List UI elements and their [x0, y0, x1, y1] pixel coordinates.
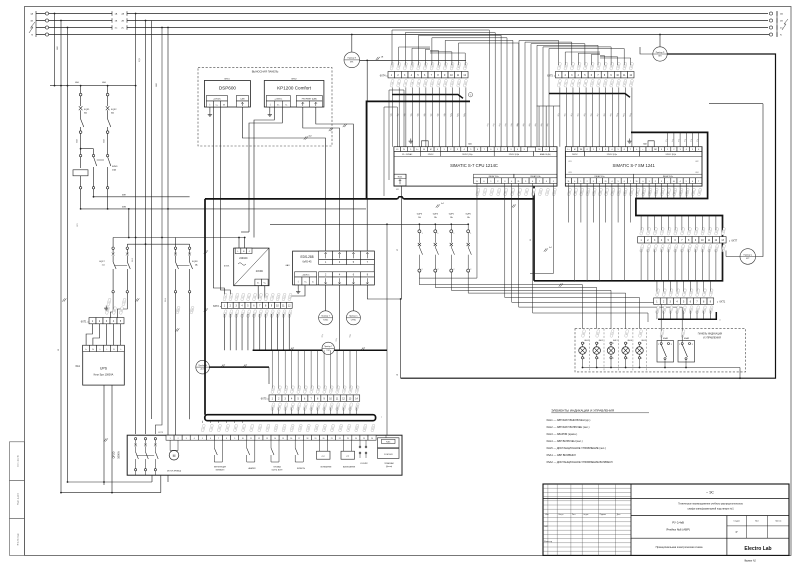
- terminal strip 6XT1 (UPS): [89, 318, 96, 324]
- svg-text:Стадия: Стадия: [733, 520, 739, 522]
- thick power line loop right: [534, 132, 723, 280]
- svg-text:220VAC: 220VAC: [239, 257, 248, 260]
- ground above CPU: [410, 139, 412, 142]
- svg-text:– ЭС: – ЭС: [706, 490, 714, 494]
- wire to fire sensor box: [386, 224, 388, 437]
- svg-text:6Ш3: 6Ш3: [132, 258, 134, 262]
- svg-text:2: 2: [641, 358, 642, 360]
- svg-text:Прибор П: Прибор П: [348, 58, 357, 60]
- svg-text:COM 043: COM 043: [384, 454, 393, 456]
- bus right terminals 2A 2B 2C N: [776, 11, 778, 37]
- svg-text:Р: Р: [736, 530, 738, 534]
- svg-text:5: 5: [202, 438, 203, 440]
- svg-text:18: 18: [306, 438, 308, 440]
- svg-text:9: 9: [234, 438, 235, 440]
- svg-text:6ХТ4: 6ХТ4: [380, 74, 386, 77]
- svg-text:6НG2: 6НG2: [291, 78, 297, 80]
- wires SM relay outputs right group to shield: [636, 183, 638, 198]
- svg-text:6Х2: 6Х2: [695, 161, 698, 163]
- svg-text:Ячейка №6 (АВР): Ячейка №6 (АВР): [666, 527, 690, 531]
- contact seal: [270, 440, 272, 448]
- svg-text:◂: ◂: [554, 74, 555, 77]
- svg-text:QF2D: QF2D: [112, 451, 116, 458]
- svg-text:24VDC (DI)a: 24VDC (DI)a: [462, 154, 472, 156]
- wires 6XT1 to UPS inputs: [86, 324, 92, 346]
- svg-text:◂: ◂: [267, 398, 268, 401]
- svg-text:4: 4: [680, 181, 681, 183]
- svg-text:22: 22: [339, 438, 341, 440]
- svg-text:2: 2: [178, 438, 179, 440]
- meter 6P2: [653, 47, 667, 61]
- svg-text:16: 16: [290, 438, 292, 440]
- meter 6RT: [726, 251, 740, 257]
- svg-text:7: 7: [698, 181, 699, 183]
- wire N drop to meter 6P2: [659, 35, 661, 48]
- svg-text:Подп. и дата: Подп. и дата: [18, 492, 20, 505]
- svg-text:ПАНЕЛЬ ИНДИКАЦИИ: ПАНЕЛЬ ИНДИКАЦИИ: [698, 332, 723, 335]
- thick power rail left drop: [204, 199, 206, 415]
- svg-text:Т2П: Т2П: [326, 350, 330, 352]
- wire feeder to breakers 6QF3-6QF6: [270, 223, 468, 225]
- svg-text:1: 1: [438, 233, 439, 235]
- terminal strip 6XT2: [221, 302, 227, 308]
- svg-text:6Ш1: 6Ш1: [57, 46, 59, 50]
- svg-text:6ХТ2: 6ХТ2: [213, 305, 219, 308]
- svg-text:⏚: ⏚: [99, 348, 101, 351]
- svg-text:2: 2: [470, 269, 471, 271]
- svg-text:KP1200 Comfort: KP1200 Comfort: [277, 86, 312, 91]
- ground EDS: [297, 285, 299, 289]
- svg-text:6HL2: 6HL2: [599, 340, 604, 342]
- svg-text:23: 23: [347, 438, 349, 440]
- wires CPU analog cells up: [538, 106, 540, 147]
- svg-text:ВЫНОСНАЯ ПАНЕЛЬ: ВЫНОСНАЯ ПАНЕЛЬ: [252, 70, 279, 74]
- coil CT switch-off: [341, 451, 355, 459]
- terminal strip 6XT7: [638, 237, 645, 243]
- wire bottom collector y492.6: [61, 492, 161, 494]
- UPS 6G1 Keor Spx 1000VA: [83, 345, 125, 385]
- svg-text:4: 4: [611, 149, 612, 151]
- svg-text:0: 0: [587, 149, 588, 151]
- svg-text:7: 7: [630, 181, 631, 183]
- svg-text:1: 1: [641, 343, 642, 345]
- svg-text:12: 12: [258, 438, 260, 440]
- relay output row CPU: [474, 174, 514, 178]
- svg-text:2M: 2M: [654, 149, 657, 151]
- svg-text:3: 3: [692, 344, 693, 346]
- svg-text:ВКЛЮЧЕНИЕ: ВКЛЮЧЕНИЕ: [321, 467, 333, 469]
- wire bus 6IP y196.8: [93, 189, 95, 197]
- svg-text:2L: 2L: [605, 181, 607, 183]
- svg-text:24: 24: [355, 438, 357, 440]
- switchgear QF2D 1600A: [127, 435, 402, 475]
- svg-text:1: 1: [580, 181, 581, 183]
- svg-text:1M: 1M: [580, 149, 583, 151]
- svg-text:6HL5 — ДИСТАНЦИОННОЕ УПРАВЛЕНИ: 6HL5 — ДИСТАНЦИОННОЕ УПРАВЛЕНИЕ (зел.): [547, 446, 606, 450]
- svg-text:ФИЛЬТРЫ: ФИЛЬТРЫ: [297, 467, 306, 470]
- svg-text:Прибор В: Прибор В: [198, 365, 207, 367]
- svg-text:6ИВ: 6ИВ: [122, 206, 127, 208]
- busbar above switchgear: [205, 415, 376, 421]
- wires PSU outputs down to 6XT2: [257, 286, 259, 299]
- wires 6XT5 bottom up to shield bar: [271, 350, 273, 388]
- svg-text:◂: ◂: [386, 74, 387, 77]
- svg-text:10: 10: [242, 438, 244, 440]
- svg-text:6: 6: [624, 181, 625, 183]
- wire EDS port6 to meter C: [352, 285, 354, 311]
- svg-text:3: 3: [661, 181, 662, 183]
- svg-text:Прибор С: Прибор С: [744, 254, 753, 256]
- wire tags below CPU relay outputs: [476, 188, 481, 196]
- shield bar below 6XT1 right: [658, 312, 716, 319]
- svg-text:0АВ: 0АВ: [102, 81, 106, 84]
- wires 6XT5 down to SM inputs: [559, 87, 561, 146]
- ground above 6XT1: [105, 306, 107, 309]
- wires 6XT2 down to shield bus: [223, 314, 225, 350]
- wires 6XT5 up stubs: [564, 52, 566, 65]
- svg-text:Прибор Т: Прибор Т: [321, 316, 330, 318]
- svg-text:Лист: Лист: [755, 520, 759, 522]
- svg-text:⏚: ⏚: [120, 348, 122, 351]
- svg-text:21: 21: [331, 438, 333, 440]
- svg-text:◂: ◂: [717, 301, 718, 304]
- svg-text:2: 2: [679, 344, 680, 346]
- svg-text:6Л1: 6Л1: [77, 223, 79, 226]
- svg-text:Дата: Дата: [617, 514, 621, 516]
- svg-text:6HL4 — АВР ВКЛЮЧЕН (зел.): 6HL4 — АВР ВКЛЮЧЕН (зел.): [547, 439, 583, 443]
- breaker 6QF1: [80, 86, 82, 94]
- svg-text:Инженер: Инженер: [544, 541, 552, 543]
- svg-text:◂: ◂: [87, 320, 88, 323]
- svg-text:6ХТ5: 6ХТ5: [547, 74, 553, 77]
- svg-text:6Р2: 6Р2: [658, 56, 661, 58]
- meter devices row: [319, 311, 333, 325]
- ethernet switch 6A3 EDS-288: [293, 251, 375, 285]
- shield line 6XT5 thick: [549, 94, 630, 98]
- motor drive M: [169, 450, 179, 460]
- svg-text:2: 2: [627, 358, 628, 360]
- wire bundle CPU relay to indication panel: [505, 183, 640, 328]
- svg-text:V-: V-: [312, 282, 314, 284]
- svg-text:4: 4: [661, 149, 662, 151]
- svg-text:6: 6: [210, 438, 211, 440]
- wires 6XT5 up hooks to CPU bundle: [519, 41, 559, 147]
- fire sensor COM block: [378, 438, 400, 448]
- svg-text:6Х4: 6Х4: [695, 172, 698, 174]
- wire EDS port2 to meter T: [325, 285, 327, 311]
- wire drops from bus 1 to AVR circuit: [54, 14, 56, 86]
- wire feeder to AVR branches: [50, 85, 136, 87]
- svg-text:1: 1: [422, 233, 423, 235]
- svg-text:СС: СС: [322, 456, 326, 458]
- svg-text:1: 1: [584, 343, 585, 345]
- svg-text:6HL5: 6HL5: [642, 340, 647, 342]
- svg-text:6: 6: [692, 181, 693, 183]
- svg-text:6ХТ7: 6ХТ7: [732, 239, 738, 242]
- svg-text:+24VDC: +24VDC: [274, 99, 282, 101]
- svg-text:2С: 2С: [121, 28, 124, 30]
- terminal strip 6XT5 bottom: [269, 395, 275, 401]
- svg-text:ВКЛ/ВЫКЛ: ВКЛ/ВЫКЛ: [216, 469, 224, 471]
- svg-text:Принципиальная электрическая с: Принципиальная электрическая схема: [656, 545, 703, 549]
- contact alarm: [246, 440, 248, 448]
- svg-text:6QF4: 6QF4: [433, 214, 439, 216]
- svg-text:2: 2: [584, 358, 585, 360]
- svg-text:ЭЛЕМЕНТЫ ИНДИКАЦИИ И УПРАВЛЕНИ: ЭЛЕМЕНТЫ ИНДИКАЦИИ И УПРАВЛЕНИЯ: [551, 409, 614, 413]
- thick power line left vertical and top: [367, 101, 471, 198]
- svg-text:PROFINET (LAN): PROFINET (LAN): [302, 98, 317, 101]
- wires 6XT4 down to CPU inputs: [392, 87, 394, 146]
- svg-text:24VDC: 24VDC: [256, 271, 264, 273]
- wire EDS port8 to CPU RJ45: [367, 186, 401, 299]
- svg-text:6GV1: 6GV1: [224, 266, 230, 268]
- svg-text:3: 3: [605, 149, 606, 151]
- wire verticals from SM left to lamps bundle: [574, 280, 576, 282]
- svg-text:4: 4: [194, 438, 195, 440]
- svg-text:◂: ◂: [220, 305, 221, 308]
- svg-text:6G1: 6G1: [75, 365, 80, 368]
- svg-text:3: 3: [186, 438, 187, 440]
- svg-text:6SA1 — АВР ВКЛ/ВЫКЛ: 6SA1 — АВР ВКЛ/ВЫКЛ: [547, 453, 576, 457]
- svg-text:2: 2: [454, 269, 455, 271]
- svg-text:1: 1: [649, 181, 650, 183]
- svg-text:5: 5: [686, 181, 687, 183]
- svg-text:EDS-288: EDS-288: [301, 255, 314, 259]
- svg-text:5: 5: [692, 149, 693, 151]
- svg-text:DSP600: DSP600: [219, 86, 237, 91]
- wires 6XT5 bottom down to busbar: [271, 408, 273, 415]
- svg-text:1: 1: [667, 149, 668, 151]
- svg-text:4L: 4L: [673, 181, 675, 183]
- svg-text:6Р1: 6Р1: [350, 62, 353, 64]
- svg-text:6КМ1: 6КМ1: [112, 166, 118, 168]
- svg-text:6НG1: 6НG1: [224, 78, 230, 80]
- svg-text:Прибор Т: Прибор Т: [324, 346, 333, 348]
- panel 'remote panel' dashed enclosure: [198, 68, 332, 146]
- svg-text:ТСМС: ТСМС: [323, 319, 329, 321]
- terminal strip 6XT4 top: [388, 72, 395, 78]
- svg-text:6QF2: 6QF2: [111, 109, 117, 111]
- svg-text:6Х1: 6Х1: [396, 189, 399, 191]
- svg-text:5: 5: [618, 181, 619, 183]
- wire meter 6P2 stub: [640, 47, 653, 54]
- svg-text:4: 4: [686, 149, 687, 151]
- svg-text:20А: 20А: [112, 169, 116, 172]
- svg-text:+24VDC: +24VDC: [302, 275, 310, 277]
- lamp common wire: [583, 367, 741, 369]
- svg-text:6хRJ-45: 6хRJ-45: [303, 260, 313, 263]
- contactor 6KM1 coil and contacts: [79, 154, 81, 156]
- svg-text:6SA2 — ДИСТАНЦИОННОЕ УПРАВЛЕНИ: 6SA2 — ДИСТАНЦИОННОЕ УПРАВЛЕНИЕ ВКЛ/ВЫКЛ: [547, 460, 613, 464]
- wire EDS port4 down: [339, 285, 341, 350]
- svg-text:Согл. исх. №: Согл. исх. №: [17, 454, 20, 467]
- wire stubs into switchgear bottom: [151, 475, 153, 482]
- panel indication and control dashed: [575, 329, 746, 372]
- svg-text:24VDC (DI)b: 24VDC (DI)b: [509, 154, 519, 156]
- stamp boxes left margin: [10, 442, 25, 481]
- svg-text:3: 3: [593, 181, 594, 183]
- shield bus thick with meter B: [196, 360, 210, 374]
- wires KP1200 PROFINET to EDS ports: [303, 107, 340, 251]
- svg-text:24VDC: 24VDC: [428, 154, 434, 156]
- ground above SM: [629, 139, 631, 142]
- svg-text:6HL4: 6HL4: [628, 340, 633, 342]
- svg-text:Подпись: Подпись: [600, 514, 606, 516]
- ethernet port RJ45 CPU: [394, 174, 406, 186]
- svg-text:8: 8: [226, 438, 227, 440]
- wires SM DI right up to thick bar: [667, 133, 669, 147]
- wire drops from bus 2 to circuits: [135, 14, 137, 435]
- svg-text:19: 19: [315, 438, 317, 440]
- svg-text:6HL3: 6HL3: [613, 340, 618, 342]
- wire DSP LAN to EDS port1: [242, 107, 325, 251]
- svg-text:20: 20: [323, 438, 325, 440]
- wire bundle 6QF outputs to indication lamps: [419, 272, 582, 329]
- svg-text:6Х1: 6Х1: [569, 161, 572, 163]
- svg-text:Листов: Листов: [775, 520, 781, 522]
- svg-text:L+: L+: [85, 349, 87, 351]
- wires QF2D cells up to busbar: [201, 421, 203, 423]
- jumper above SM: [648, 141, 654, 147]
- svg-text:6ХТ5: 6ХТ5: [261, 398, 267, 401]
- svg-text:Лист: Лист: [572, 514, 576, 516]
- wire N loop drop: [400, 299, 402, 378]
- meter 6P1: [344, 52, 360, 68]
- svg-text:МОТОР-ПРИВОД: МОТОР-ПРИВОД: [167, 471, 182, 473]
- wires 6XT7 up to shield bar: [640, 216, 642, 231]
- svg-text:24VDC: 24VDC: [572, 154, 578, 156]
- svg-text:АВАРИЯ: АВАРИЯ: [249, 467, 257, 470]
- cable slash marks: [436, 204, 438, 207]
- svg-text:SIMATIC S-7 CPU 1214C: SIMATIC S-7 CPU 1214C: [450, 163, 498, 168]
- coil CC switch-on: [317, 451, 331, 459]
- svg-text:11: 11: [250, 438, 252, 440]
- svg-text:6SA2: 6SA2: [684, 337, 690, 340]
- svg-text:4: 4: [611, 181, 612, 183]
- svg-text:0АВ: 0АВ: [75, 81, 79, 84]
- ground KP1200: [269, 107, 271, 112]
- svg-text:Прибор П: Прибор П: [656, 52, 665, 54]
- wires DSP600 24VDC down to 6XT2: [213, 107, 224, 299]
- svg-text:Инв. № подл.: Инв. № подл.: [17, 532, 20, 545]
- svg-text:RJ45: RJ45: [398, 177, 402, 179]
- svg-text:6Ш4: 6Ш4: [165, 298, 167, 302]
- svg-text:3: 3: [671, 344, 672, 346]
- svg-text:2: 2: [422, 269, 423, 271]
- contact ventilation: [213, 440, 215, 448]
- svg-text:6QF5: 6QF5: [449, 214, 455, 216]
- thick power rail y198.9: [205, 198, 398, 200]
- svg-text:СЧЁТЧ. ВСКР.: СЧЁТЧ. ВСКР.: [271, 468, 283, 471]
- wire tags above QF2D: [201, 424, 206, 432]
- svg-text:3L: 3L: [636, 181, 638, 183]
- wires KP1200 24VDC down: [254, 107, 274, 238]
- svg-text:5: 5: [618, 149, 619, 151]
- thick power drop x534: [533, 186, 535, 281]
- wires 6XT7 down to shield bar: [640, 249, 642, 280]
- svg-text:6HL2 — АВТОМАТ ВКЛЮЧЕН (зел.): 6HL2 — АВТОМАТ ВКЛЮЧЕН (зел.): [547, 425, 590, 429]
- terminal cells QF2D top: [166, 435, 174, 440]
- svg-text:Keor Spx 1000VA: Keor Spx 1000VA: [94, 374, 114, 377]
- svg-text:0: 0: [642, 181, 643, 183]
- svg-text:ПЛОМБА: ПЛОМБА: [273, 466, 281, 469]
- svg-text:24VDC (DI)a: 24VDC (DI)a: [607, 154, 617, 156]
- svg-text:6ИП: 6ИП: [122, 194, 127, 196]
- power supply 6GV1 220VAC 24VDC: [234, 248, 269, 286]
- svg-text:1: 1: [627, 343, 628, 345]
- wire EDS 24VDC to 6XT2: [290, 285, 305, 299]
- svg-text:шкафа трансформаторной подстан: шкафа трансформаторной подстанции №1: [688, 508, 735, 511]
- wire meter 6P1 to strip: [360, 59, 466, 61]
- svg-text:LAN: LAN: [240, 98, 245, 101]
- wire meter 6P2 to N loop: [401, 54, 776, 378]
- svg-text:1: 1: [470, 233, 471, 235]
- svg-text:1: 1: [598, 343, 599, 345]
- svg-text:4х2: 4х2: [441, 203, 444, 205]
- svg-text:6: 6: [698, 149, 699, 151]
- shield bus thick with meter T2P: [253, 349, 387, 351]
- wire N drop to meter 6P1: [351, 35, 353, 52]
- svg-text:Формат А2: Формат А2: [744, 560, 756, 563]
- svg-text:14: 14: [274, 438, 276, 440]
- svg-text:М: М: [173, 454, 176, 458]
- svg-text:RJ45: RJ45: [386, 442, 390, 444]
- svg-text:2: 2: [599, 149, 600, 151]
- svg-text:1: 1: [613, 343, 614, 345]
- wires 6QF7 outputs to strip 6XT1: [110, 293, 113, 318]
- svg-text:3: 3: [680, 149, 681, 151]
- svg-text:2: 2: [658, 344, 659, 346]
- wire junction tie AVR: [81, 148, 94, 150]
- svg-text:РУ 0,4кВ: РУ 0,4кВ: [672, 520, 684, 524]
- svg-text:2: 2: [598, 358, 599, 360]
- relay output rows SM: [565, 174, 633, 178]
- svg-text:6ХТ1: 6ХТ1: [81, 320, 87, 323]
- wire CPU relay return to 6QF3: [419, 183, 477, 278]
- svg-text:И УПРАВЛЕНИЯ: И УПРАВЛЕНИЯ: [703, 337, 721, 340]
- svg-text:2: 2: [673, 149, 674, 151]
- svg-text:6QF6: 6QF6: [466, 214, 472, 216]
- svg-text:13: 13: [266, 438, 268, 440]
- ground DSP600: [209, 107, 211, 112]
- svg-text:V-: V-: [285, 104, 287, 106]
- wires UPS down to switchgear: [103, 385, 105, 485]
- wires CPU left power cells: [396, 107, 398, 147]
- svg-text:25: 25: [363, 438, 365, 440]
- title block: [543, 484, 789, 555]
- contact filters: [294, 440, 296, 448]
- svg-text:L: L: [106, 349, 107, 351]
- svg-text:1L: 1L: [567, 181, 569, 183]
- terminal strip 6XT5 top: [555, 72, 562, 78]
- svg-text:Техническое перевооружение уче: Техническое перевооружение учебного расп…: [678, 504, 743, 506]
- svg-text:1600А: 1600А: [117, 451, 121, 459]
- svg-text:Прибор С: Прибор С: [349, 316, 358, 318]
- svg-text:ВЕНТИЛЯЦИЯ: ВЕНТИЛЯЦИЯ: [214, 467, 227, 469]
- wire vertical 763: [762, 104, 764, 251]
- wires 6XT1 right up: [656, 281, 658, 292]
- lamps 6HL1-6HL5: [581, 330, 586, 338]
- bus input terminals 1A 1B 1C N left: [35, 11, 37, 37]
- wire bottom collector y482: [68, 481, 153, 483]
- svg-text:Electro Lab: Electro Lab: [744, 546, 771, 552]
- svg-text:1С: 1С: [115, 28, 118, 30]
- svg-text:1: 1: [170, 438, 171, 440]
- svg-text:(Датчик): (Датчик): [386, 466, 393, 468]
- wires SM relay outputs left group down: [568, 183, 570, 222]
- svg-text:6HL1: 6HL1: [585, 340, 590, 342]
- svg-text:ВЫКЛЮЧЕНИЕ: ВЫКЛЮЧЕНИЕ: [343, 467, 356, 469]
